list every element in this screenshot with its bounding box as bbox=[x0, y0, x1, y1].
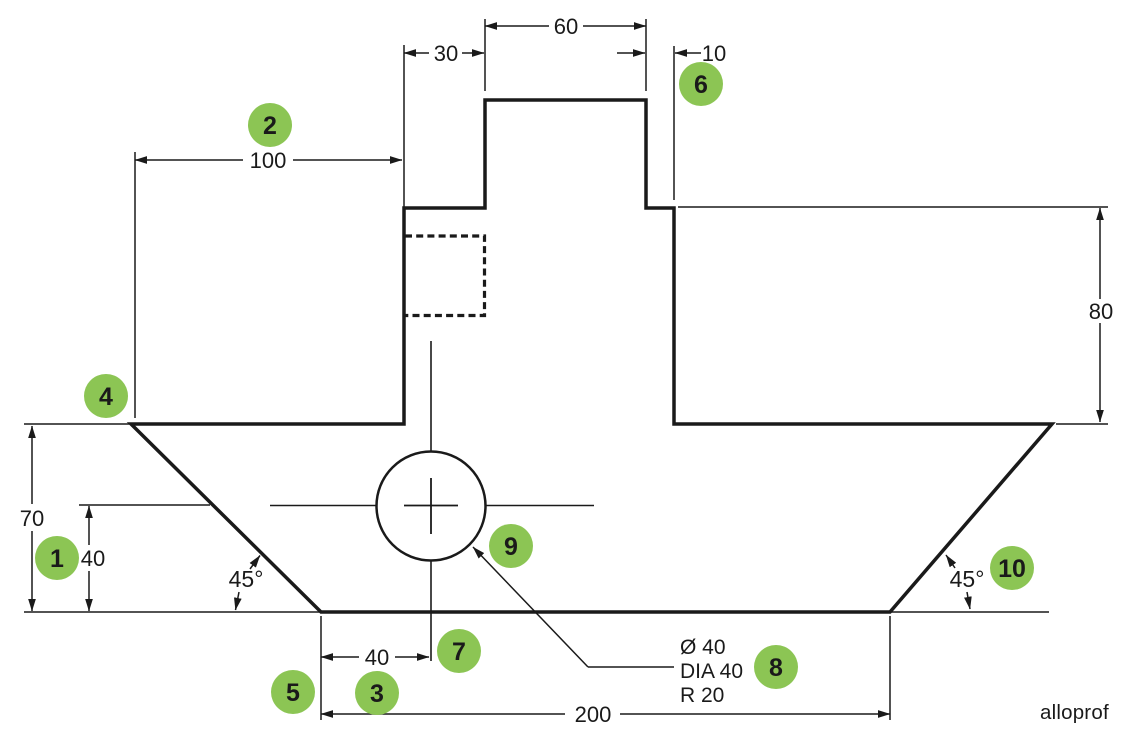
extension line x=321 (bottom) bbox=[320, 616, 322, 720]
extension line x=135 for dim 100 bbox=[134, 152, 136, 418]
svg-text:DIA 40: DIA 40 bbox=[680, 660, 743, 683]
dimension 10 (arrows outside) bbox=[617, 41, 726, 66]
svg-text:2: 2 bbox=[263, 112, 277, 140]
extension line x=674 (top) bbox=[673, 46, 675, 200]
svg-text:5: 5 bbox=[286, 679, 300, 707]
badge 1 bbox=[35, 536, 79, 580]
svg-text:8: 8 bbox=[769, 654, 783, 682]
svg-text:6: 6 bbox=[694, 71, 708, 99]
dimension 60 bbox=[485, 14, 646, 39]
badge 7 bbox=[437, 629, 481, 673]
svg-text:40: 40 bbox=[81, 546, 105, 571]
badge 5 bbox=[271, 670, 315, 714]
svg-text:100: 100 bbox=[250, 148, 287, 173]
badge 2 bbox=[248, 103, 292, 147]
angle 45 left: arrow to slope bbox=[250, 556, 260, 570]
dimension 200 bbox=[321, 702, 890, 727]
badge 6 bbox=[679, 62, 723, 106]
ground line left extension bbox=[24, 611, 321, 613]
svg-text:40: 40 bbox=[365, 645, 389, 670]
svg-text:70: 70 bbox=[20, 506, 44, 531]
vertical centerline bbox=[430, 341, 432, 661]
svg-text:80: 80 bbox=[1089, 299, 1113, 324]
svg-text:45°: 45° bbox=[950, 566, 985, 592]
hidden feature dashed box bbox=[405, 236, 485, 316]
svg-text:7: 7 bbox=[452, 638, 466, 666]
svg-text:Ø 40: Ø 40 bbox=[680, 636, 726, 659]
extension line y=505 for dim 40 bbox=[79, 504, 210, 506]
angle 45 right: arrow to base bbox=[967, 592, 970, 609]
badge 9 bbox=[489, 524, 533, 568]
extension line top-left (y=424) bbox=[24, 423, 131, 425]
dimension 70 bbox=[18, 426, 47, 611]
hole circle bbox=[377, 452, 486, 561]
ground line right extension bbox=[890, 611, 1049, 613]
svg-text:3: 3 bbox=[370, 680, 384, 708]
dimension 40 (bottom) bbox=[321, 645, 429, 670]
extension line y=207 (right, for dim 80) bbox=[678, 206, 1108, 208]
badge 8 bbox=[754, 645, 798, 689]
svg-text:30: 30 bbox=[434, 41, 458, 66]
extension line x=485 (top) bbox=[484, 19, 486, 91]
svg-text:4: 4 bbox=[99, 383, 113, 411]
badge 10 bbox=[990, 546, 1034, 590]
svg-text:10: 10 bbox=[702, 41, 726, 66]
leader line to hole bbox=[473, 547, 588, 667]
dimension 80 bbox=[1086, 208, 1116, 422]
angle 45 right: arrow to slope bbox=[946, 555, 955, 568]
extension line y=424 right of part bbox=[1056, 423, 1108, 425]
svg-text:R 20: R 20 bbox=[680, 684, 724, 707]
badge 3 bbox=[355, 671, 399, 715]
svg-text:9: 9 bbox=[504, 533, 518, 561]
badge 4 bbox=[84, 374, 128, 418]
dimension 30 bbox=[404, 41, 484, 66]
angle 45 left: arrow to base bbox=[236, 592, 240, 610]
svg-text:60: 60 bbox=[554, 14, 578, 39]
extension line x=646 (top) bbox=[645, 19, 647, 91]
svg-text:1: 1 bbox=[50, 545, 64, 573]
part outline bbox=[131, 100, 1052, 612]
dimension 100 bbox=[135, 147, 402, 173]
svg-text:45°: 45° bbox=[229, 566, 264, 592]
horizontal centerline bbox=[270, 505, 594, 507]
dimension 40 (vertical, left) bbox=[76, 506, 105, 611]
svg-text:alloprof: alloprof bbox=[1040, 701, 1109, 724]
extension line x=890 (bottom) bbox=[889, 616, 891, 720]
svg-text:10: 10 bbox=[998, 555, 1026, 583]
svg-text:200: 200 bbox=[575, 702, 612, 727]
extension line x=404 (above step) bbox=[403, 45, 405, 207]
